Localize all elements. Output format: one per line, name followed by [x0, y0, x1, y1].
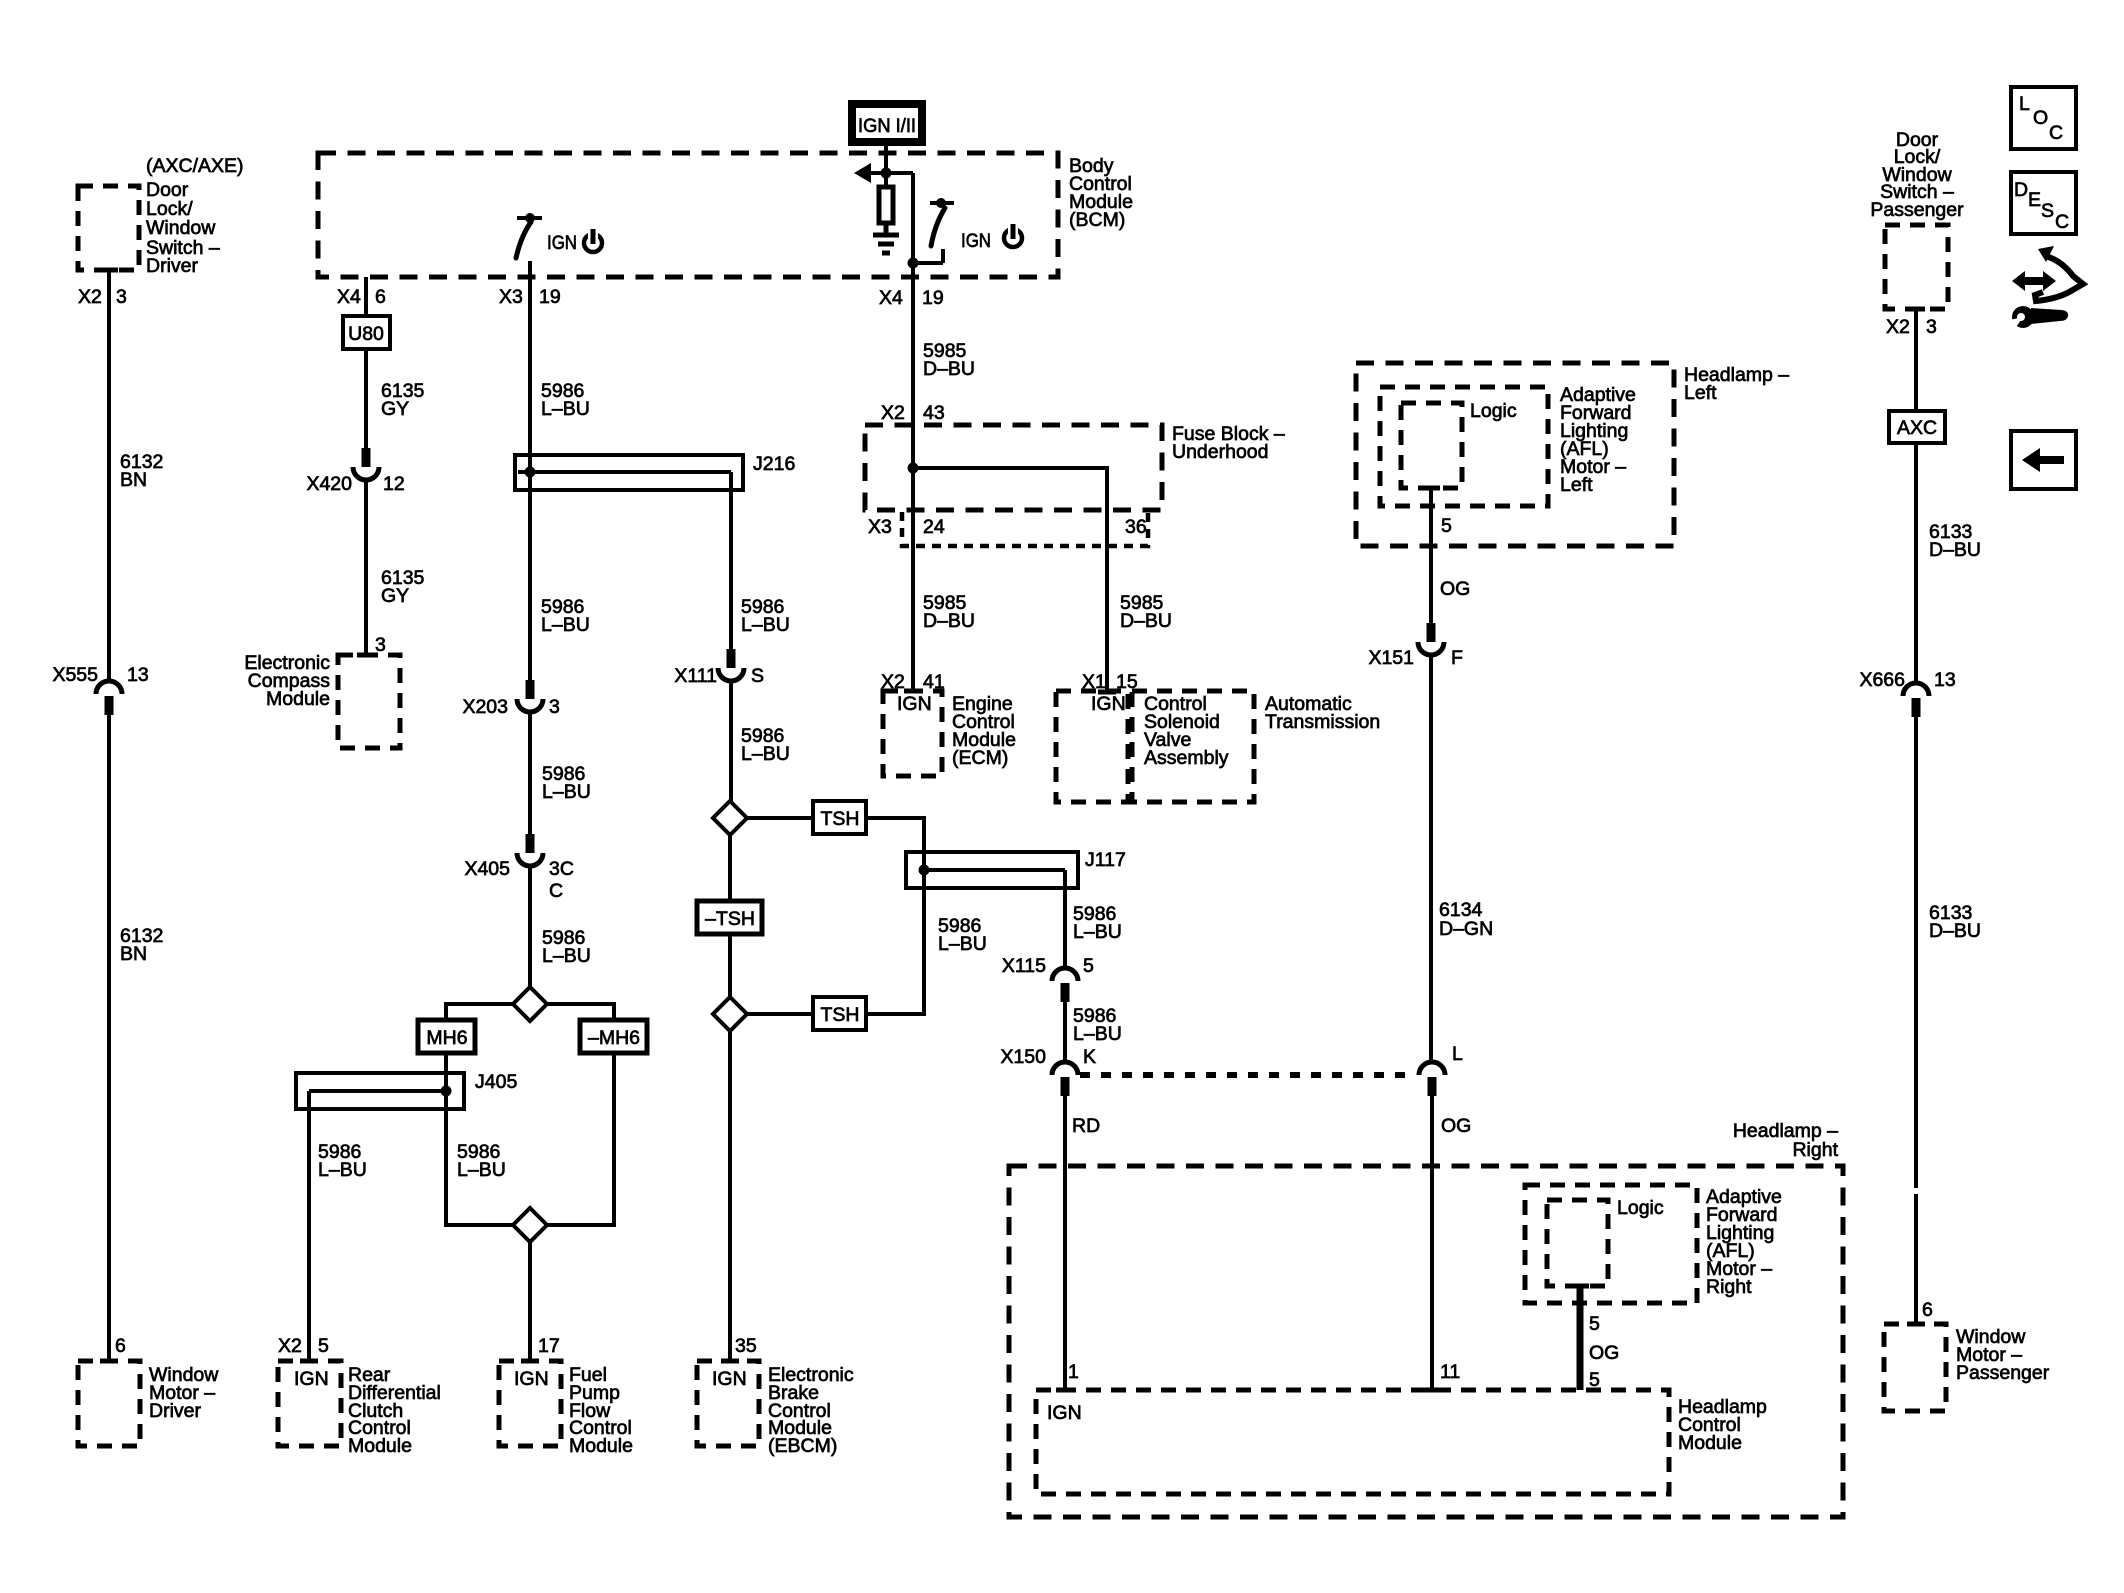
svg-text:D–BU: D–BU — [1929, 920, 1981, 942]
svg-text:5: 5 — [1589, 1313, 1600, 1335]
wire -TSH vertical lower — [728, 934, 732, 997]
icon DESC box — [2011, 172, 2076, 234]
svg-text:IGN: IGN — [712, 1368, 747, 1390]
svg-text:GY: GY — [381, 398, 409, 420]
module Control Solenoid Valve Assembly — [1056, 691, 1380, 802]
svg-text:IGN: IGN — [294, 1368, 329, 1390]
svg-text:OG: OG — [1441, 1115, 1471, 1137]
module Fuel Pump Flow Control Module — [499, 1361, 633, 1457]
wire OG from logic — [1431, 488, 1470, 623]
svg-text:L–BU: L–BU — [938, 933, 987, 955]
svg-text:Right: Right — [1792, 1139, 1838, 1161]
svg-text:Underhood: Underhood — [1172, 441, 1269, 463]
svg-text:Module: Module — [1678, 1432, 1742, 1454]
wire -MH6 down leg — [547, 1053, 614, 1225]
svg-text:X4: X4 — [879, 287, 903, 309]
wire -TSH vertical upper — [728, 835, 732, 901]
fuse MH6 — [418, 1020, 475, 1053]
wire X4-6 to U80 — [364, 277, 368, 316]
module Door Lock/Window Switch - Passenger — [1870, 129, 1964, 309]
svg-text:13: 13 — [1934, 669, 1956, 691]
svg-text:BN: BN — [120, 943, 147, 965]
svg-text:–TSH: –TSH — [705, 908, 755, 930]
fuse TSH upper — [813, 801, 866, 834]
switch IGN left in BCM — [516, 213, 577, 258]
svg-text:K: K — [1083, 1046, 1096, 1068]
connector X666 pin 13 — [1859, 669, 1955, 717]
svg-text:D–BU: D–BU — [1120, 610, 1172, 632]
module Electronic Brake Control Module (EBCM) — [697, 1361, 854, 1457]
svg-text:AXC: AXC — [1897, 417, 1937, 439]
svg-text:Passenger: Passenger — [1870, 199, 1964, 221]
pin X1 15 — [1082, 671, 1138, 693]
svg-text:(ECM): (ECM) — [952, 747, 1008, 769]
wire J405 left leg 5986 L-BU — [309, 1109, 367, 1361]
wire TSH to J117 — [866, 818, 924, 852]
svg-text:S: S — [2041, 200, 2054, 222]
svg-text:D–BU: D–BU — [1929, 539, 1981, 561]
resistor in BCM — [879, 187, 893, 223]
svg-text:IGN: IGN — [514, 1368, 549, 1390]
splice J405 — [296, 1071, 517, 1109]
splice diamond D1 — [513, 987, 547, 1021]
connector X111 pin S — [674, 649, 764, 687]
wire D4 to TSH lower — [747, 1012, 813, 1016]
module Window Motor - Driver — [78, 1361, 219, 1446]
module Headlamp - Right — [1009, 1120, 1843, 1517]
svg-text:MH6: MH6 — [426, 1027, 467, 1049]
switch IGN right in BCM — [913, 198, 991, 263]
svg-text:5: 5 — [1083, 955, 1094, 977]
pin X4 19 BCM — [879, 287, 944, 309]
icon double arrow with wrench — [2005, 246, 2083, 333]
wire J405 right leg 5986 L-BU — [446, 1091, 513, 1225]
wire OG to headlamp control module — [1432, 1096, 1471, 1390]
power symbol left — [584, 228, 602, 252]
wire D1 to MH6 — [446, 1004, 513, 1020]
wire 5985 D-BU to ECM — [923, 592, 975, 632]
svg-text:Module: Module — [348, 1435, 412, 1457]
svg-text:TSH: TSH — [821, 1004, 860, 1026]
svg-text:L–BU: L–BU — [1073, 1023, 1122, 1045]
pin X2 41 — [881, 671, 945, 693]
wire 5986 L-BU right of J117 — [1065, 888, 1122, 969]
module Headlamp Control Module — [1036, 1390, 1767, 1494]
svg-text:E: E — [2028, 189, 2041, 211]
svg-text:6: 6 — [1922, 1299, 1933, 1321]
wire 6132 BN lower — [109, 715, 163, 1361]
wire 5986 L-BU X115 to X150 — [1065, 1002, 1122, 1062]
svg-text:Logic: Logic — [1470, 400, 1517, 422]
svg-text:L–BU: L–BU — [1073, 921, 1122, 943]
connector X3 row of fuse block — [868, 512, 1148, 546]
svg-text:IGN: IGN — [897, 693, 932, 715]
svg-text:24: 24 — [923, 516, 945, 538]
svg-text:RD: RD — [1072, 1115, 1100, 1137]
svg-text:X2: X2 — [78, 286, 102, 308]
svg-text:X2: X2 — [881, 402, 905, 424]
pin X3 19 — [499, 286, 561, 308]
wire D1 to -MH6 — [547, 1004, 614, 1020]
svg-text:TSH: TSH — [821, 808, 860, 830]
terminal bar hcm pin11 — [1423, 1388, 1441, 1393]
svg-text:GY: GY — [381, 585, 409, 607]
wire 6135 GY lower — [366, 480, 425, 655]
svg-text:6: 6 — [375, 286, 386, 308]
svg-text:F: F — [1451, 647, 1463, 669]
svg-text:Driver: Driver — [146, 255, 199, 277]
connector X150 pin K — [1000, 1046, 1096, 1096]
svg-text:12: 12 — [383, 473, 405, 495]
svg-text:X115: X115 — [1002, 955, 1046, 977]
svg-text:Left: Left — [1560, 474, 1593, 496]
svg-text:IGN: IGN — [547, 232, 577, 254]
module Engine Control Module (ECM) — [883, 691, 1016, 776]
wire 5986 L-BU to X405 — [530, 712, 591, 834]
svg-text:L–BU: L–BU — [741, 614, 790, 636]
pin X2 5 — [278, 1335, 329, 1357]
svg-text:L–BU: L–BU — [542, 945, 591, 967]
svg-text:5: 5 — [1441, 515, 1452, 537]
arrow left inside BCM — [854, 163, 913, 183]
connector X151 pin F — [1368, 623, 1463, 669]
svg-text:Driver: Driver — [149, 1400, 202, 1422]
svg-text:L: L — [2019, 93, 2030, 115]
svg-text:L: L — [1452, 1043, 1463, 1065]
svg-text:Left: Left — [1684, 382, 1717, 404]
svg-text:11: 11 — [1440, 1361, 1460, 1383]
svg-text:3: 3 — [1926, 316, 1937, 338]
splice J216 — [515, 453, 795, 490]
svg-text:13: 13 — [127, 664, 149, 686]
pin X4 6 — [337, 286, 386, 308]
svg-text:–MH6: –MH6 — [588, 1027, 640, 1049]
svg-text:IGN: IGN — [1091, 693, 1126, 715]
svg-text:U80: U80 — [348, 323, 384, 345]
wire 6133 D-BU lower — [1916, 717, 1981, 1324]
module AFL Motor - Right — [1525, 1185, 1782, 1303]
fuse AXC — [1889, 411, 1945, 443]
wire 5986 L-BU to D3 — [731, 681, 790, 801]
svg-text:6: 6 — [115, 1335, 126, 1357]
svg-text:D: D — [2014, 179, 2028, 201]
svg-text:Module: Module — [266, 688, 330, 710]
wire D2 to Fuel Pump — [528, 1242, 532, 1361]
power symbol right — [1004, 223, 1022, 247]
wire IGN I/II into BCM — [884, 146, 888, 187]
svg-text:IGN I/II: IGN I/II — [858, 115, 916, 137]
svg-text:J216: J216 — [753, 453, 795, 475]
wire J216 right to X111 5986 L-BU — [731, 490, 790, 649]
connector X420 pin 12 — [306, 448, 404, 495]
terminal bar window motor passenger — [1907, 1322, 1925, 1327]
splice J117 — [906, 849, 1126, 888]
logic box left — [1401, 400, 1517, 488]
svg-text:43: 43 — [923, 402, 945, 424]
wire MH6 to J405 — [444, 1053, 448, 1091]
ground in BCM — [873, 223, 899, 253]
svg-text:(EBCM): (EBCM) — [768, 1435, 837, 1457]
terminal bar ebcm — [721, 1359, 739, 1364]
svg-text:X405: X405 — [464, 858, 510, 880]
svg-text:IGN: IGN — [1047, 1402, 1082, 1424]
fuse -MH6 — [580, 1020, 647, 1053]
fuse U80 — [343, 316, 390, 349]
module BCM dashed box — [318, 153, 1133, 277]
module Electronic Compass Module — [244, 652, 400, 748]
svg-text:X666: X666 — [1859, 669, 1905, 691]
wire 5986 L-BU left of J117 — [938, 915, 987, 955]
svg-text:X2: X2 — [278, 1335, 302, 1357]
svg-text:OG: OG — [1589, 1342, 1619, 1364]
wire 5985 D-BU to fuse block — [913, 277, 975, 691]
wire 6135 GY upper — [366, 349, 425, 448]
terminal bar fuel pump — [521, 1359, 539, 1364]
svg-text:D–BU: D–BU — [923, 358, 975, 380]
svg-text:3: 3 — [549, 696, 560, 718]
svg-text:L–BU: L–BU — [741, 743, 790, 765]
svg-text:OG: OG — [1440, 578, 1470, 600]
svg-text:L–BU: L–BU — [542, 781, 591, 803]
svg-text:17: 17 — [538, 1335, 560, 1357]
svg-text:Assembly: Assembly — [1144, 747, 1229, 769]
splice diamond D4 — [713, 997, 747, 1031]
module AFL Motor - Left — [1380, 384, 1636, 506]
svg-text:X2: X2 — [1886, 316, 1910, 338]
svg-text:C: C — [2049, 122, 2063, 144]
wire to AXC — [1914, 309, 1918, 411]
wire dotted X150 to L — [1080, 1072, 1414, 1078]
svg-text:1: 1 — [1068, 1361, 1079, 1383]
svg-text:3: 3 — [116, 286, 127, 308]
svg-text:X203: X203 — [462, 696, 508, 718]
svg-text:O: O — [2033, 107, 2048, 129]
connector X115 pin 5 — [1002, 955, 1094, 1002]
svg-text:Logic: Logic — [1617, 1197, 1664, 1219]
wire OG logic to HCM — [1580, 1286, 1619, 1391]
svg-text:(AXC/AXE): (AXC/AXE) — [146, 155, 244, 177]
svg-text:L–BU: L–BU — [541, 398, 590, 420]
svg-text:X4: X4 — [337, 286, 361, 308]
svg-text:Module: Module — [569, 1435, 633, 1457]
module Window Motor - Passenger — [1884, 1324, 2050, 1411]
splice diamond D3 — [713, 801, 747, 835]
svg-text:35: 35 — [735, 1335, 757, 1357]
svg-text:L–BU: L–BU — [457, 1159, 506, 1181]
wire 5986 L-BU to diamond — [530, 866, 591, 987]
terminal bar ecm — [904, 689, 922, 694]
connector X203 pin 3 — [462, 680, 559, 718]
pin X2 3 — [78, 286, 127, 308]
connector X405 pin 3C C — [464, 834, 573, 902]
svg-text:19: 19 — [539, 286, 561, 308]
wire RD to headlamp control module — [1065, 1096, 1100, 1390]
svg-text:J405: J405 — [475, 1071, 517, 1093]
svg-text:X3: X3 — [868, 516, 892, 538]
connector L — [1419, 1062, 1445, 1096]
module Rear Differential Clutch Control Module — [278, 1361, 441, 1457]
terminal bar solenoid — [1098, 690, 1116, 695]
terminal bar rear diff — [300, 1359, 318, 1364]
terminal bar logic left — [1422, 486, 1440, 491]
terminal bar window motor driver — [100, 1359, 118, 1364]
svg-text:IGN: IGN — [961, 230, 991, 252]
svg-text:L–BU: L–BU — [541, 614, 590, 636]
connector X555 pin 13 — [52, 664, 148, 715]
fuse -TSH — [697, 901, 762, 934]
module Fuse Block - Underhood — [865, 423, 1285, 510]
svg-text:X150: X150 — [1000, 1046, 1046, 1068]
wire 5985 D-BU to solenoid — [1120, 592, 1172, 632]
terminal bar passenger switch — [1907, 307, 1925, 312]
module Door Lock/Window Switch - Driver — [78, 155, 244, 277]
svg-text:J117: J117 — [1085, 849, 1126, 871]
svg-text:36: 36 — [1125, 516, 1147, 538]
wire 5986 L-BU to X203 — [530, 490, 590, 680]
svg-text:Transmission: Transmission — [1265, 711, 1380, 733]
svg-text:5: 5 — [318, 1335, 329, 1357]
svg-text:L–BU: L–BU — [318, 1159, 367, 1181]
svg-text:3C: 3C — [549, 858, 574, 880]
pin X2 3 passenger — [1886, 316, 1937, 338]
wire fuse block internal — [908, 463, 1108, 693]
svg-text:X420: X420 — [306, 473, 352, 495]
wire 6134 D-GN long — [1431, 655, 1493, 1062]
wire BCM feed to X4 19 — [908, 173, 919, 277]
fuse IGN I/II box — [848, 100, 926, 146]
svg-text:X555: X555 — [52, 664, 98, 686]
svg-text:Right: Right — [1706, 1276, 1752, 1298]
wire D3 to TSH — [747, 816, 813, 820]
svg-text:Passenger: Passenger — [1956, 1362, 2050, 1384]
svg-text:C: C — [549, 880, 563, 902]
svg-text:Window: Window — [146, 217, 216, 239]
terminal bar hcm pin1 — [1056, 1388, 1074, 1393]
svg-text:(BCM): (BCM) — [1069, 209, 1125, 231]
fuse TSH lower — [813, 997, 866, 1030]
wire 6132 BN upper — [109, 270, 163, 683]
wire D4 to EBCM — [728, 1031, 732, 1361]
module Headlamp - Left — [1356, 363, 1789, 546]
icon back arrow box — [2011, 431, 2076, 489]
svg-text:BN: BN — [120, 469, 147, 491]
terminal bar logic right — [1571, 1284, 1589, 1289]
svg-text:19: 19 — [922, 287, 944, 309]
wire 5986 L-BU from BCM — [530, 261, 590, 455]
icon LOC box — [2011, 87, 2076, 149]
svg-text:S: S — [751, 665, 764, 687]
terminal bar compass — [357, 653, 375, 658]
svg-text:D–GN: D–GN — [1439, 918, 1493, 940]
svg-text:C: C — [2055, 211, 2069, 233]
svg-text:X3: X3 — [499, 286, 523, 308]
logic box right — [1547, 1197, 1664, 1286]
svg-text:X151: X151 — [1368, 647, 1414, 669]
svg-text:X111: X111 — [674, 665, 717, 687]
svg-text:D–BU: D–BU — [923, 610, 975, 632]
wire TSH lower to J117 — [866, 888, 924, 1014]
splice diamond D2 — [513, 1208, 547, 1242]
terminal bar driver switch — [100, 268, 118, 273]
wire 6133 D-BU upper — [1916, 443, 1981, 683]
pin X2 43 — [881, 402, 945, 424]
